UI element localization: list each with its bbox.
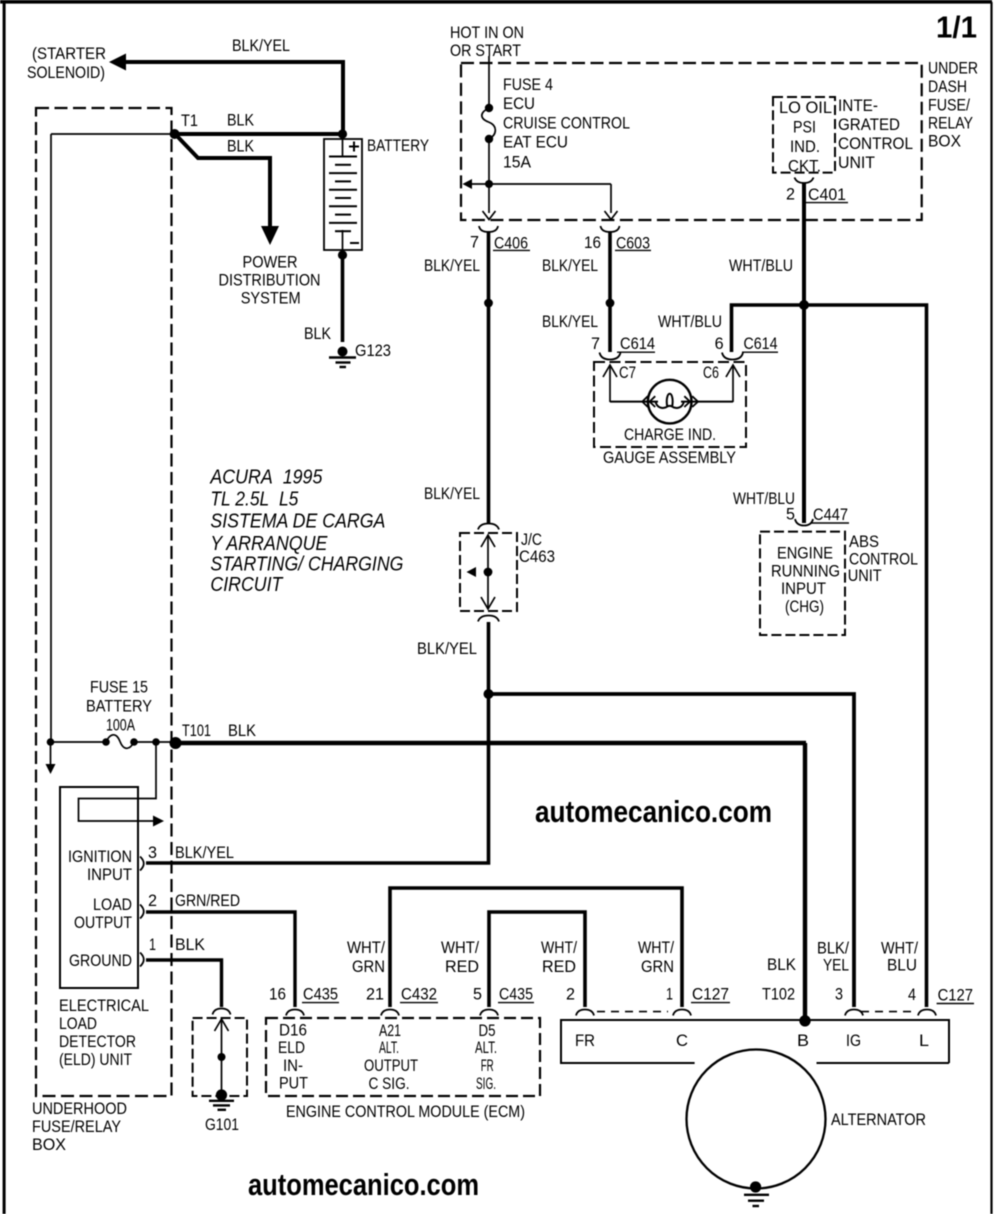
svg-text:WHT/: WHT/: [347, 939, 385, 957]
svg-text:LOAD: LOAD: [93, 896, 132, 914]
svg-text:16: 16: [584, 234, 601, 252]
svg-text:OUTPUT: OUTPUT: [74, 914, 132, 932]
svg-text:SIG.: SIG.: [476, 1075, 496, 1093]
svg-text:C127: C127: [938, 987, 973, 1005]
svg-text:G123: G123: [355, 342, 391, 360]
svg-text:GRATED: GRATED: [838, 116, 900, 134]
svg-text:BLK/YEL: BLK/YEL: [542, 313, 598, 331]
svg-text:CIRCUIT: CIRCUIT: [210, 574, 284, 596]
svg-text:C447: C447: [813, 506, 848, 524]
svg-text:SOLENOID): SOLENOID): [27, 64, 105, 82]
svg-text:ALT.: ALT.: [475, 1039, 497, 1057]
svg-text:FUSE/RELAY: FUSE/RELAY: [32, 1118, 121, 1136]
svg-text:GRN: GRN: [641, 958, 674, 976]
svg-text:DISTRIBUTION: DISTRIBUTION: [219, 272, 321, 290]
svg-text:BLK/YEL: BLK/YEL: [232, 37, 290, 55]
svg-text:C: C: [676, 1032, 688, 1050]
svg-text:ACURA 1995: ACURA 1995: [210, 467, 324, 489]
svg-text:RUNNING: RUNNING: [771, 563, 840, 581]
svg-text:FR: FR: [481, 1057, 494, 1075]
svg-text:C614: C614: [620, 335, 655, 353]
svg-text:16: 16: [269, 985, 286, 1003]
svg-text:BLU: BLU: [887, 957, 917, 975]
svg-text:LOAD: LOAD: [59, 1015, 97, 1033]
svg-text:EAT ECU: EAT ECU: [503, 134, 568, 152]
svg-text:FUSE 15: FUSE 15: [90, 679, 148, 697]
svg-text:C7: C7: [619, 364, 636, 382]
svg-text:ABS: ABS: [849, 533, 879, 551]
svg-text:BLK: BLK: [175, 936, 205, 954]
svg-text:7: 7: [470, 234, 479, 252]
svg-text:INPUT: INPUT: [87, 866, 132, 884]
svg-text:7: 7: [591, 335, 600, 353]
svg-text:(ELD) UNIT: (ELD) UNIT: [59, 1051, 132, 1069]
svg-text:PSI: PSI: [793, 119, 816, 137]
svg-text:BLK/YEL: BLK/YEL: [417, 640, 477, 658]
svg-text:6: 6: [715, 335, 724, 353]
svg-text:L: L: [919, 1032, 929, 1050]
svg-text:C6: C6: [703, 364, 719, 382]
svg-text:HOT IN ON: HOT IN ON: [450, 24, 524, 42]
svg-text:WHT/: WHT/: [881, 940, 918, 958]
svg-text:DETECTOR: DETECTOR: [59, 1033, 136, 1051]
svg-text:BLK: BLK: [228, 722, 256, 740]
svg-text:BLK/YEL: BLK/YEL: [175, 844, 234, 862]
svg-text:ELD: ELD: [278, 1039, 305, 1057]
svg-text:(STARTER: (STARTER: [32, 45, 106, 63]
svg-text:5: 5: [786, 506, 795, 524]
svg-text:3: 3: [835, 985, 843, 1003]
svg-text:LO OIL: LO OIL: [779, 99, 832, 117]
svg-text:2: 2: [148, 892, 157, 910]
svg-text:UNDERHOOD: UNDERHOOD: [32, 1100, 127, 1118]
svg-text:POWER: POWER: [243, 254, 298, 272]
svg-text:C614: C614: [744, 335, 778, 353]
svg-text:1: 1: [149, 936, 156, 954]
svg-text:1: 1: [666, 985, 673, 1003]
svg-text:4: 4: [908, 986, 916, 1004]
svg-text:BATTERY: BATTERY: [367, 137, 429, 155]
svg-text:RED: RED: [542, 958, 576, 976]
svg-text:automecanico.com: automecanico.com: [248, 1167, 479, 1202]
svg-text:automecanico.com: automecanico.com: [535, 794, 772, 829]
svg-text:BLK/YEL: BLK/YEL: [424, 485, 480, 503]
svg-text:C401: C401: [808, 186, 846, 204]
svg-text:ENGINE CONTROL MODULE (ECM): ENGINE CONTROL MODULE (ECM): [286, 1103, 525, 1121]
svg-text:DASH: DASH: [928, 78, 967, 96]
svg-text:5: 5: [473, 985, 482, 1003]
svg-text:CONTROL: CONTROL: [849, 551, 918, 569]
svg-text:FR: FR: [575, 1032, 595, 1050]
svg-text:2: 2: [786, 186, 795, 204]
svg-text:ENGINE: ENGINE: [777, 545, 833, 563]
svg-text:FUSE/: FUSE/: [928, 97, 970, 115]
svg-text:BATTERY: BATTERY: [86, 698, 152, 716]
svg-text:UNIT: UNIT: [848, 567, 882, 585]
svg-text:PUT: PUT: [279, 1075, 308, 1093]
svg-text:ECU: ECU: [503, 95, 535, 113]
svg-text:INPUT: INPUT: [781, 580, 826, 598]
svg-text:C435: C435: [303, 986, 338, 1004]
svg-text:WHT/: WHT/: [441, 939, 479, 957]
svg-text:1/1: 1/1: [936, 10, 977, 45]
svg-text:BLK/: BLK/: [817, 940, 849, 958]
svg-text:2: 2: [566, 985, 575, 1003]
svg-text:BLK: BLK: [227, 138, 254, 156]
svg-text:21: 21: [366, 985, 384, 1003]
svg-text:T1: T1: [181, 112, 198, 130]
svg-text:C432: C432: [401, 986, 437, 1004]
svg-text:WHT/: WHT/: [638, 939, 674, 957]
svg-text:T101: T101: [182, 722, 211, 740]
svg-text:FUSE 4: FUSE 4: [503, 76, 553, 94]
svg-text:A21: A21: [379, 1022, 401, 1040]
svg-text:YEL: YEL: [823, 957, 849, 975]
svg-text:15A: 15A: [503, 154, 531, 172]
svg-text:J/C: J/C: [521, 531, 542, 549]
svg-text:TL 2.5L L5: TL 2.5L L5: [210, 489, 299, 511]
svg-text:C463: C463: [519, 548, 555, 566]
svg-text:ALTERNATOR: ALTERNATOR: [831, 1111, 926, 1129]
svg-text:SYSTEM: SYSTEM: [241, 290, 301, 308]
svg-text:ALT.: ALT.: [379, 1039, 399, 1057]
svg-text:BLK/YEL: BLK/YEL: [424, 257, 480, 275]
svg-text:100A: 100A: [106, 717, 135, 735]
svg-text:Y ARRANQUE: Y ARRANQUE: [210, 533, 328, 555]
svg-text:CHARGE IND.: CHARGE IND.: [624, 426, 716, 444]
svg-text:CRUISE CONTROL: CRUISE CONTROL: [503, 115, 630, 133]
svg-text:GROUND: GROUND: [69, 952, 132, 970]
svg-text:SISTEMA DE CARGA: SISTEMA DE CARGA: [210, 511, 385, 533]
svg-text:IGNITION: IGNITION: [68, 848, 132, 866]
svg-text:BLK/YEL: BLK/YEL: [542, 257, 598, 275]
svg-text:(CHG): (CHG): [785, 598, 824, 616]
svg-text:IN-: IN-: [283, 1057, 303, 1075]
svg-text:IND.: IND.: [790, 138, 820, 156]
svg-text:STARTING/ CHARGING: STARTING/ CHARGING: [210, 554, 403, 576]
svg-text:WHT/BLU: WHT/BLU: [729, 257, 793, 275]
svg-text:CONTROL: CONTROL: [838, 135, 913, 153]
svg-text:GAUGE ASSEMBLY: GAUGE ASSEMBLY: [603, 449, 736, 467]
svg-text:RED: RED: [445, 958, 479, 976]
svg-text:ELECTRICAL: ELECTRICAL: [59, 997, 149, 1015]
svg-text:WHT/: WHT/: [541, 939, 577, 957]
svg-text:D16: D16: [279, 1022, 307, 1040]
svg-text:RELAY: RELAY: [928, 115, 973, 133]
svg-text:OR START: OR START: [450, 42, 521, 60]
svg-text:GRN/RED: GRN/RED: [175, 892, 240, 910]
svg-text:BLK: BLK: [767, 956, 796, 974]
svg-text:OUTPUT: OUTPUT: [364, 1057, 418, 1075]
svg-text:BOX: BOX: [928, 133, 961, 151]
svg-text:D5: D5: [479, 1022, 496, 1040]
svg-text:WHT/BLU: WHT/BLU: [658, 313, 722, 331]
svg-text:C SIG.: C SIG.: [369, 1075, 410, 1093]
svg-text:BOX: BOX: [32, 1136, 66, 1154]
svg-text:C435: C435: [499, 986, 533, 1004]
svg-text:UNIT: UNIT: [838, 154, 875, 172]
svg-text:CKT.: CKT.: [788, 158, 821, 176]
svg-text:UNDER: UNDER: [928, 60, 978, 78]
svg-text:GRN: GRN: [352, 958, 385, 976]
svg-text:G101: G101: [205, 1116, 239, 1134]
svg-text:C127: C127: [692, 986, 729, 1004]
svg-text:B: B: [797, 1032, 809, 1050]
svg-text:IG: IG: [846, 1032, 861, 1050]
svg-text:BLK: BLK: [304, 325, 331, 343]
svg-text:INTE-: INTE-: [838, 97, 878, 115]
svg-text:T102: T102: [762, 985, 795, 1003]
svg-text:3: 3: [148, 844, 157, 862]
svg-text:BLK: BLK: [227, 112, 254, 130]
